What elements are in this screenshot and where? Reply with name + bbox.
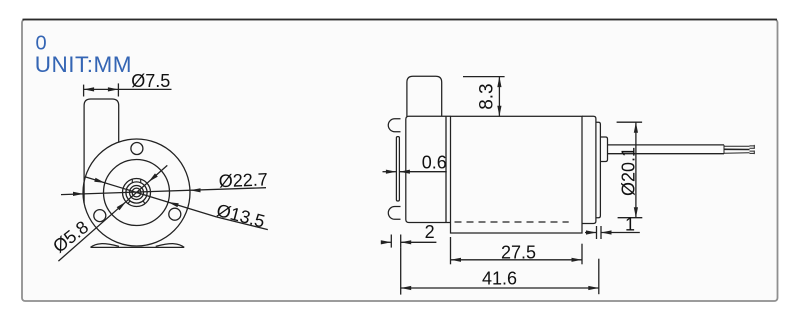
svg-text:Ø22.7: Ø22.7 <box>218 169 268 191</box>
svg-text:1: 1 <box>625 215 635 235</box>
svg-text:Ø7.5: Ø7.5 <box>131 71 170 91</box>
svg-text:41.6: 41.6 <box>482 269 517 289</box>
svg-text:0.6: 0.6 <box>422 152 447 172</box>
svg-text:8.3: 8.3 <box>477 83 498 109</box>
svg-text:Ø20.1: Ø20.1 <box>619 147 639 196</box>
svg-text:27.5: 27.5 <box>501 243 536 263</box>
svg-text:UNIT:MM: UNIT:MM <box>35 52 132 77</box>
svg-text:2: 2 <box>425 222 435 242</box>
